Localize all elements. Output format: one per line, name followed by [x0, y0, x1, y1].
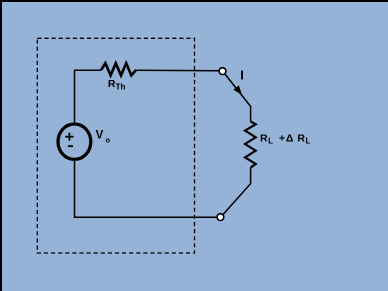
voltage source Vo circle	[58, 124, 91, 159]
wire: R_Th right to top terminal	[136, 69, 219, 72]
top terminal node	[219, 68, 226, 75]
wire: RL bottom to bottom terminal (diagonal)	[223, 168, 250, 215]
dashed Thevenin-source box	[37, 38, 194, 253]
bottom terminal node	[217, 214, 224, 221]
wire: source top to R_Th left (corner)	[75, 70, 102, 122]
minus sign inside source	[68, 145, 73, 147]
resistor R_Th	[101, 63, 136, 75]
resistor RL (vertical)	[245, 121, 256, 167]
wire: bottom rail from source to bottom terminal	[75, 161, 217, 217]
svg-text:RL+ΔRL: RL+ΔRL	[260, 132, 311, 145]
wire: top terminal diagonal down to load branch	[225, 74, 250, 121]
plus sign inside source	[65, 136, 73, 138]
current arrowhead	[233, 85, 242, 94]
svg-text:I: I	[240, 67, 244, 82]
